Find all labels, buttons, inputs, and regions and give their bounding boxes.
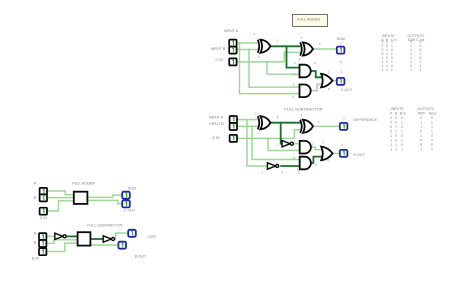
wire box to C OUT [88, 200, 123, 204]
input pin C IN [229, 58, 236, 65]
wire B to box [46, 197, 73, 199]
svg-text:1: 1 [395, 147, 397, 151]
wire B to XOR1s [237, 125, 258, 127]
pin number labels subtractor [255, 112, 346, 175]
svg-text:1: 1 [420, 125, 422, 129]
svg-text:INPUT A: INPUT A [209, 115, 224, 119]
svg-text:B in: B in [400, 111, 406, 115]
subcircuit box FULL ADDER [74, 192, 88, 204]
wire XOR1s out to XOR2s upper [271, 122, 301, 124]
subcircuit box FULL SUBTRACTOR [78, 232, 91, 245]
svg-text:0: 0 [401, 134, 403, 138]
svg-text:1: 1 [431, 125, 433, 129]
not gate NOT A [55, 233, 66, 239]
svg-text:C IN: C IN [215, 58, 223, 62]
svg-text:1: 1 [391, 68, 393, 72]
svg-text:SUM: SUM [128, 187, 136, 191]
svg-text:0: 0 [390, 120, 392, 124]
svg-text:DIFF: DIFF [148, 235, 157, 239]
svg-text:0: 0 [431, 138, 433, 142]
and gate AND2 [300, 85, 311, 98]
input pin A [230, 116, 237, 123]
wire B branch to AND2s upper [252, 126, 299, 159]
svg-text:0: 0 [401, 143, 403, 147]
svg-text:1: 1 [401, 120, 403, 124]
svg-text:1: 1 [401, 129, 403, 133]
wire B IN branch to AND1s lower [268, 138, 299, 150]
wire AND1s out to OR upper [311, 147, 321, 150]
wire OR out to C OUT [333, 80, 337, 82]
svg-text:1: 1 [382, 68, 384, 72]
input pin A [40, 188, 47, 195]
svg-text:1: 1 [390, 143, 392, 147]
svg-text:1: 1 [420, 147, 422, 151]
svg-text:1: 1 [410, 68, 412, 72]
svg-text:0: 0 [395, 138, 397, 142]
node B branch [251, 125, 253, 127]
node A branch [246, 119, 248, 121]
node A branch [239, 42, 241, 44]
svg-text:1: 1 [431, 129, 433, 133]
svg-text:0: 0 [390, 129, 392, 133]
table2 data rows [390, 116, 433, 152]
or gate OR1 [321, 74, 332, 88]
node C IN branch [266, 61, 268, 63]
wire NOT2 out to DIFF [112, 233, 128, 239]
wire A to NOT [46, 235, 55, 237]
svg-text:0: 0 [431, 116, 433, 120]
svg-text:1: 1 [420, 68, 422, 72]
svg-text:1: 1 [420, 134, 422, 138]
svg-text:1: 1 [401, 147, 403, 151]
output pin SUM [122, 192, 130, 199]
svg-text:0: 0 [395, 120, 397, 124]
wire AND2s out to OR lower [311, 157, 321, 163]
svg-text:1: 1 [420, 120, 422, 124]
svg-text:0: 0 [431, 134, 433, 138]
wire XOR2s out to DIFFERENCE [313, 125, 340, 127]
svg-text:INPUT A: INPUT A [224, 29, 239, 33]
node XOR1s branch [280, 122, 282, 124]
wire C IN to box [46, 201, 73, 211]
node B branch [248, 49, 250, 51]
wire C IN up to XOR2 lower [284, 52, 300, 62]
svg-text:1: 1 [390, 138, 392, 142]
wire box to SUM [88, 195, 123, 197]
input pin A [229, 40, 236, 47]
output pin B OUT [340, 150, 348, 157]
svg-text:1: 1 [395, 129, 397, 133]
svg-text:0: 0 [420, 116, 422, 120]
xor gate XOR1s [258, 116, 271, 129]
svg-text:0: 0 [431, 143, 433, 147]
svg-text:INPUT B: INPUT B [211, 47, 226, 51]
wire A to XOR1 [237, 42, 258, 44]
wire XOR2 out to SUM [313, 48, 337, 50]
wire XOR1 out to XOR2 upper [271, 45, 301, 47]
svg-text:1: 1 [401, 138, 403, 142]
output pin DIFFERENCE [340, 123, 348, 130]
table1 data rows [382, 40, 422, 72]
wire C IN branch to AND1 lower [267, 62, 299, 74]
svg-text:1: 1 [395, 143, 397, 147]
or gate ORs [321, 147, 332, 161]
svg-text:1: 1 [390, 134, 392, 138]
svg-text:0: 0 [395, 116, 397, 120]
input pin B IN [230, 135, 237, 142]
wire A to XOR1s [237, 119, 258, 121]
input pin A [39, 233, 46, 240]
svg-text:C OUT: C OUT [341, 88, 353, 92]
svg-text:0: 0 [401, 125, 403, 129]
svg-text:0: 0 [395, 134, 397, 138]
wire NOT out to box [67, 235, 78, 237]
wire XOR1s branch to NOT1 [281, 123, 283, 144]
node B IN branch [267, 137, 269, 139]
node XOR1 out branch [285, 45, 287, 47]
not gate NOT1 [282, 141, 293, 147]
not gate NOT2 [267, 163, 278, 169]
svg-text:B OUT: B OUT [354, 153, 366, 157]
wire A branch to AND2 lower [240, 43, 300, 94]
svg-text:C OUT: C OUT [124, 208, 136, 212]
svg-text:0: 0 [420, 129, 422, 133]
svg-text:0: 0 [401, 116, 403, 120]
xor gate XOR2 [300, 42, 313, 55]
svg-text:1: 1 [431, 120, 433, 124]
svg-text:B OUT: B OUT [135, 255, 147, 259]
svg-text:DIFF: DIFF [418, 111, 426, 115]
not gate NOT OUT [103, 236, 114, 242]
wire A to box [46, 191, 73, 195]
label box FULL ADDER [293, 15, 328, 27]
output pin B OUT [118, 242, 126, 249]
wire B IN horizontal [237, 137, 294, 139]
wire B branch to AND2 upper [249, 50, 299, 88]
svg-text:C IN: C IN [40, 216, 48, 220]
wire NOT2 out to AND2s lower [280, 165, 299, 167]
input pin B [229, 47, 236, 54]
wire box to B OUT [91, 244, 119, 246]
wire B to XOR1 [237, 49, 258, 51]
wire A branch to NOT2 [247, 120, 267, 166]
wire B IN up to XOR2s lower [294, 130, 300, 139]
svg-text:0: 0 [420, 138, 422, 142]
wire OR out to B OUT [333, 152, 340, 154]
output pin C OUT [337, 78, 345, 85]
xor gate XOR1 [258, 40, 271, 53]
input pin B [40, 194, 47, 201]
svg-text:0: 0 [420, 143, 422, 147]
svg-text:1: 1 [395, 125, 397, 129]
output pin DIFF [128, 230, 136, 237]
svg-text:FULL SUBTRACTOR: FULL SUBTRACTOR [284, 106, 322, 111]
input pin B IN [39, 248, 46, 255]
svg-text:B IN: B IN [32, 256, 40, 260]
svg-text:1: 1 [390, 147, 392, 151]
output pin SUM [337, 47, 345, 54]
and gate AND2s [300, 157, 311, 170]
input pin B [230, 123, 237, 130]
wire B IN to box [46, 243, 78, 251]
xor gate XOR2s [300, 120, 313, 133]
input pin C IN [40, 208, 47, 215]
svg-text:DIFFERENCE: DIFFERENCE [354, 118, 378, 122]
wire AND1 out to OR upper [311, 71, 321, 77]
and gate AND1s [300, 141, 311, 154]
input pin B [39, 240, 46, 247]
svg-text:INPUT B: INPUT B [209, 122, 224, 126]
wire box to NOT2 [91, 238, 104, 240]
pin number labels adder [254, 32, 343, 99]
svg-text:FULL ADDER: FULL ADDER [297, 17, 321, 21]
svg-text:1: 1 [386, 68, 388, 72]
wire XOR1 out branch to AND1 upper [287, 46, 300, 67]
svg-text:FULL ADDER: FULL ADDER [72, 182, 95, 186]
wire B to box [46, 240, 78, 244]
wire NOT1 out to AND1s upper [294, 143, 300, 145]
wire C IN horizontal [237, 61, 284, 63]
svg-text:0: 0 [390, 116, 392, 120]
svg-text:1: 1 [431, 147, 433, 151]
svg-text:Bout: Bout [429, 111, 436, 115]
svg-text:FULL SUBTRACTOR: FULL SUBTRACTOR [87, 224, 123, 228]
output pin C OUT [122, 200, 130, 207]
svg-text:0: 0 [390, 125, 392, 129]
svg-text:B IN: B IN [212, 136, 220, 140]
and gate AND1 [300, 65, 311, 78]
wire AND2 out to OR lower [311, 84, 321, 91]
